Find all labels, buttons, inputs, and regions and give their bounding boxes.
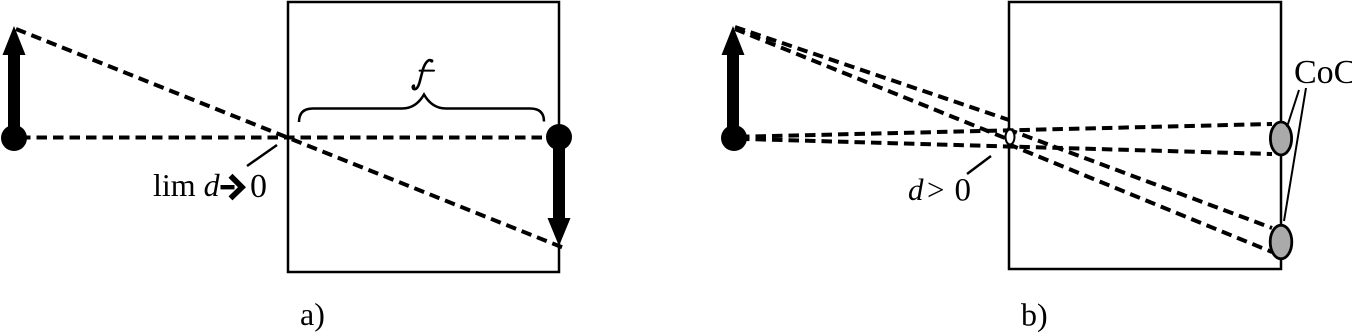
svg-text:0: 0 xyxy=(955,173,972,209)
svg-text:>: > xyxy=(927,172,944,207)
diagonal dashed ray a (object tip to image tip) xyxy=(16,29,564,248)
brace for f xyxy=(299,95,544,123)
svg-text:a): a) xyxy=(300,296,325,332)
svg-text:0: 0 xyxy=(250,168,267,205)
object dot a xyxy=(1,125,27,151)
object dot b xyxy=(721,125,747,151)
aperture ellipse (white) xyxy=(1006,130,1015,145)
leader line CoC to upper ellipse xyxy=(1287,90,1299,127)
ray T1a: tip to aperture xyxy=(735,27,1009,120)
bold arrow glyph: bar xyxy=(221,185,235,189)
ray T2b: aperture to lower CoC bottom xyxy=(1008,144,1272,252)
svg-text:b): b) xyxy=(1021,296,1048,332)
svg-text:lim d: lim d xyxy=(153,167,221,203)
axis dashed line a (object dot to image dot) xyxy=(20,136,552,140)
ray T2a: tip to aperture xyxy=(735,29,1010,140)
leader line for d label xyxy=(967,156,991,174)
image arrow a (downward) xyxy=(548,137,571,246)
svg-text:d: d xyxy=(908,172,924,207)
object arrow a (upward) xyxy=(3,26,26,137)
upper CoC ellipse xyxy=(1270,122,1291,155)
lens box b xyxy=(1009,2,1281,269)
bold arrow glyph: chevron head xyxy=(231,176,243,199)
ray T1b: aperture to lower CoC top xyxy=(1007,129,1272,228)
leader line CoC to lower ellipse xyxy=(1284,88,1306,221)
ray D2: dot through aperture bottom to upper CoC bottom xyxy=(739,139,1272,154)
svg-text:CoC: CoC xyxy=(1294,54,1352,91)
lens box a xyxy=(288,2,559,272)
label f (drawn italic serif f) xyxy=(413,60,434,89)
leader line for lim label xyxy=(247,145,277,166)
ray D1: dot through aperture top to upper CoC top xyxy=(739,124,1272,137)
lower CoC ellipse xyxy=(1270,225,1292,259)
image dot a (on right edge of box) xyxy=(546,124,572,150)
object arrow b (upward) xyxy=(722,26,745,136)
